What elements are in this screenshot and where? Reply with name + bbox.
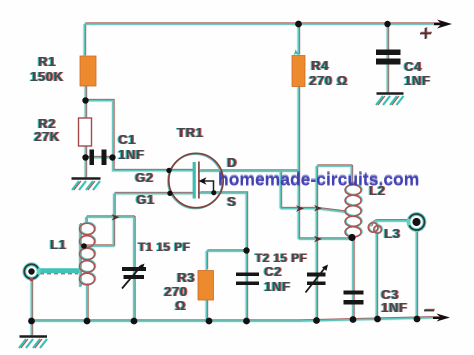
svg-text:homemade-circuits.com: homemade-circuits.com xyxy=(218,170,419,190)
